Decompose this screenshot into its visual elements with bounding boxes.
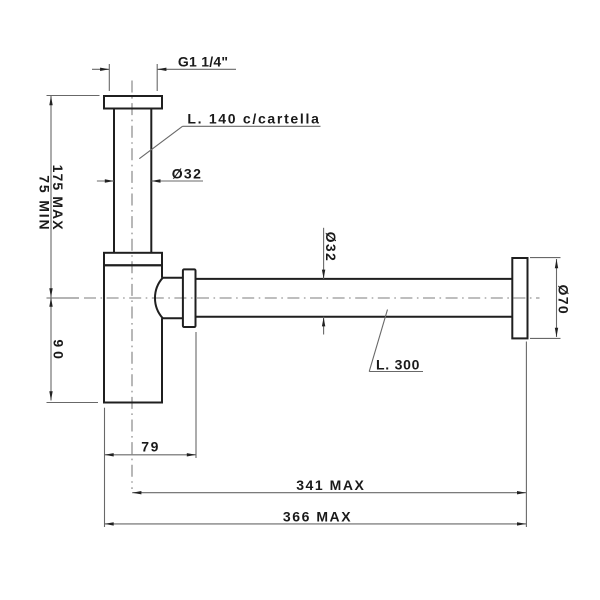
dim G 1 1/4: right extension line xyxy=(156,64,158,91)
elbow top wall xyxy=(162,277,184,279)
dim 175 MAX: arrow pointing up xyxy=(49,96,52,105)
dim G 1 1/4: left tail line xyxy=(92,68,109,70)
dim 341/366: right extension line xyxy=(525,342,527,528)
dim 90: bottom extension line xyxy=(47,402,99,404)
dim Ø32 inlet: left arrow pointing right xyxy=(105,179,114,182)
wall rosette flange xyxy=(512,258,527,338)
dim Ø32 outlet: lower tail xyxy=(323,317,325,335)
dim G 1 1/4: left extension line xyxy=(108,64,110,91)
svg-text:79: 79 xyxy=(141,439,160,455)
outlet tube bottom wall xyxy=(196,316,513,318)
leader L.140: underline xyxy=(183,125,321,127)
svg-text:75 MIN: 75 MIN xyxy=(36,175,52,231)
leader L.300: diagonal xyxy=(369,310,387,372)
svg-text:G1 1/4": G1 1/4" xyxy=(178,53,228,69)
dim 366 MAX: arrow pointing left xyxy=(105,522,114,525)
dim 341 MAX: arrow pointing left xyxy=(132,491,141,494)
body collar nut xyxy=(104,253,162,265)
dim 90: vertical dimension line xyxy=(50,298,52,401)
dim 366 MAX: dimension line xyxy=(105,523,527,525)
inlet flange (top) xyxy=(104,96,162,109)
dim Ø32 outlet: arrow pointing down xyxy=(322,270,325,279)
dim Ø70: vertical dimension line xyxy=(556,259,558,337)
svg-text:90: 90 xyxy=(51,339,67,362)
dim 79: dimension line xyxy=(105,454,197,456)
svg-text:L. 300: L. 300 xyxy=(376,356,420,372)
dim 79: arrow pointing left xyxy=(105,453,114,456)
dim G 1 1/4: arrow pointing right xyxy=(100,68,109,71)
inlet tube left wall xyxy=(113,109,115,253)
dim 79: arrow pointing right xyxy=(187,453,196,456)
svg-text:Ø70: Ø70 xyxy=(556,285,572,316)
dim 366 MAX: arrow pointing right xyxy=(517,522,526,525)
svg-text:Ø32: Ø32 xyxy=(323,232,339,263)
svg-text:Ø32: Ø32 xyxy=(172,165,203,181)
dim Ø70: top extension line xyxy=(530,257,561,259)
dim Ø70: bottom extension line xyxy=(530,337,561,339)
trap body cup xyxy=(104,265,162,402)
elbow bottom wall xyxy=(162,317,184,319)
dim 175 MAX 75 MIN: vertical dimension line xyxy=(50,96,52,298)
dim G 1 1/4: arrow pointing left xyxy=(157,68,166,71)
outlet nut xyxy=(183,269,196,327)
dim 90: arrow pointing up xyxy=(49,298,52,307)
dim 90: extension line at body centre xyxy=(47,297,80,299)
leader L.140: diagonal xyxy=(139,126,182,158)
dim Ø32 inlet: left arrow tail xyxy=(97,180,114,182)
svg-text:L. 140 c/cartella: L. 140 c/cartella xyxy=(187,110,320,126)
dim Ø32 inlet: right tail under text xyxy=(151,180,203,182)
center line vertical (trap axis) xyxy=(131,81,133,490)
dim 79: left extension line xyxy=(104,408,106,527)
outlet tube top wall xyxy=(196,278,513,280)
svg-text:341 MAX: 341 MAX xyxy=(296,477,365,493)
leader L.300: underline xyxy=(369,371,423,373)
dim Ø70: arrow pointing down xyxy=(555,328,558,337)
dim 341 MAX: dimension line xyxy=(132,492,526,494)
svg-text:366 MAX: 366 MAX xyxy=(283,508,352,524)
dim Ø70: arrow pointing up xyxy=(555,259,558,268)
dim Ø32 inlet: right arrow pointing left xyxy=(151,179,160,182)
elbow outline xyxy=(155,278,163,318)
dim 175 MAX: arrow pointing down xyxy=(49,288,52,297)
dim Ø32 outlet: upper line xyxy=(323,228,325,279)
dim 90: arrow pointing down xyxy=(49,391,52,400)
dim Ø32 outlet: arrow pointing up xyxy=(322,317,325,326)
dim 79: right extension line xyxy=(195,332,197,458)
dim G 1 1/4: right tail line under text xyxy=(157,68,236,70)
dim 175 MAX: top extension line xyxy=(47,95,100,97)
center line horizontal (outlet axis) xyxy=(84,297,540,299)
inlet tube right wall xyxy=(150,109,152,253)
dim 341 MAX: arrow pointing right xyxy=(517,491,526,494)
